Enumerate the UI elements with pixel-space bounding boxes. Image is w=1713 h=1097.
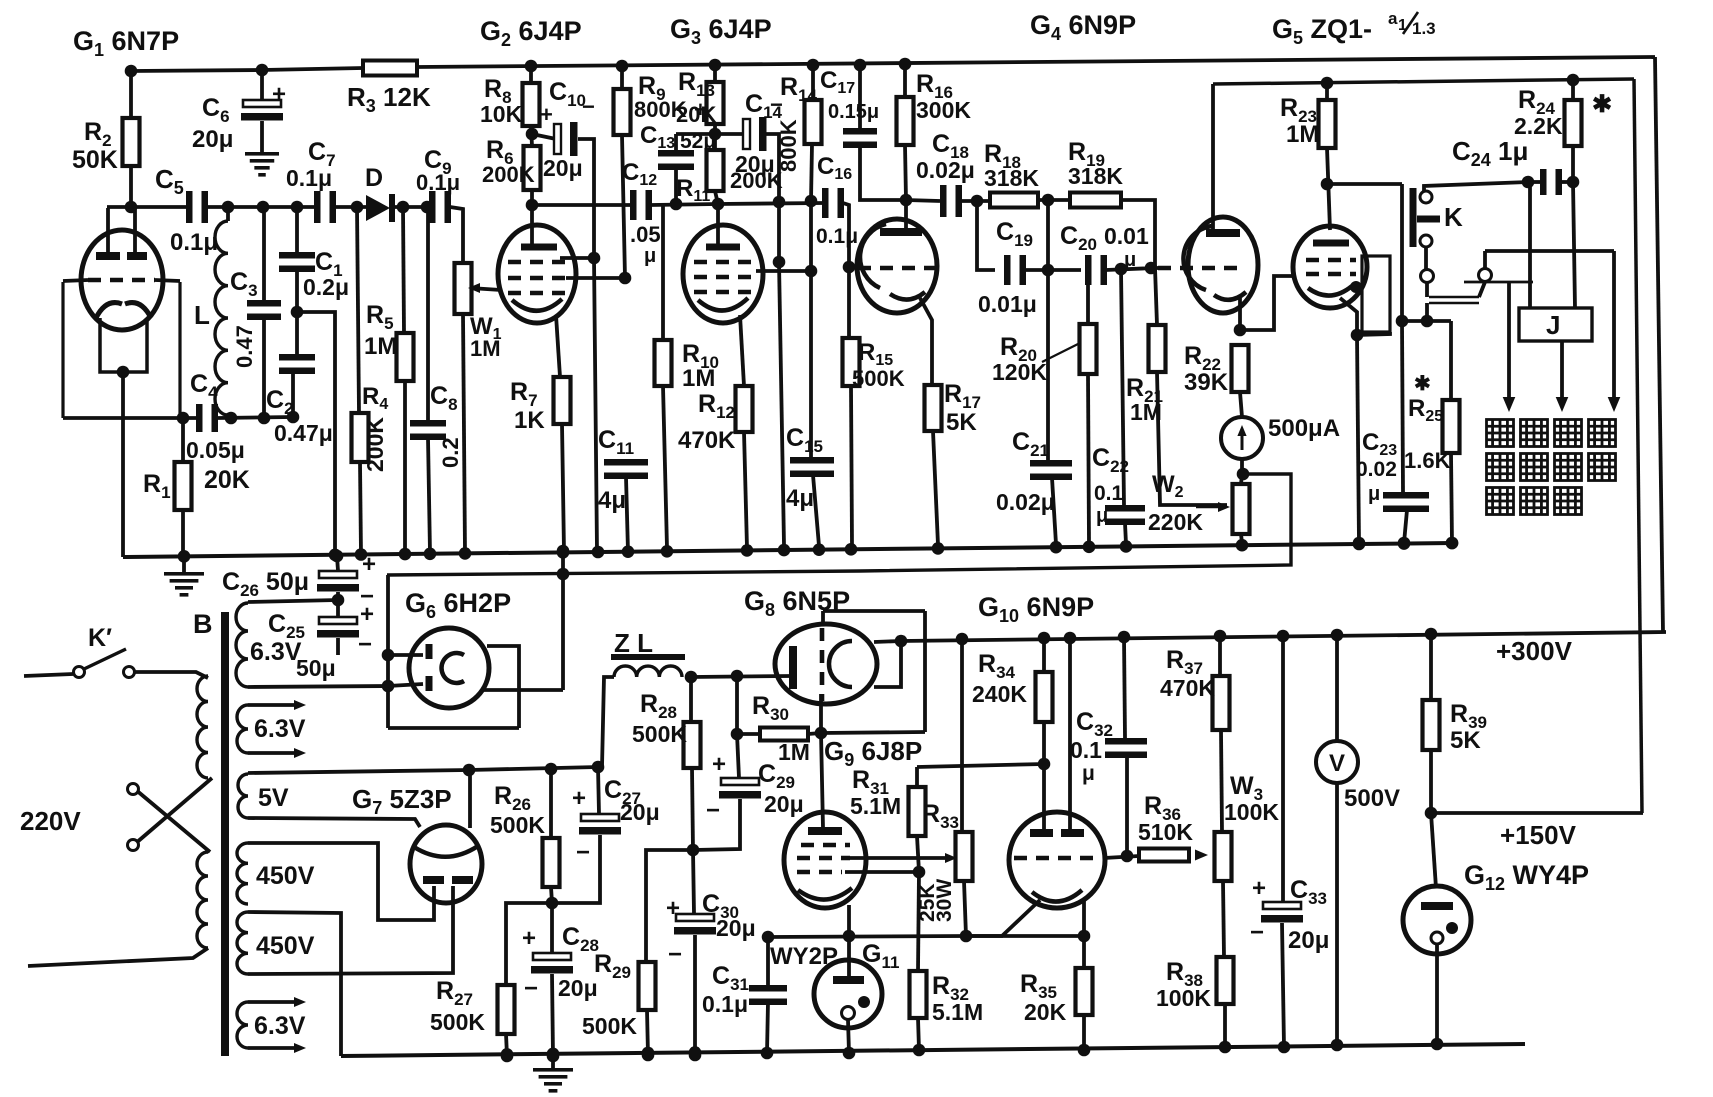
transformer crossover: [136, 778, 212, 852]
capacitor C19: [1004, 255, 1026, 285]
capacitor C24: [1522, 169, 1580, 195]
label R24 asterisk: [1592, 91, 1612, 118]
wire G12 cathode lead: [1431, 944, 1444, 1050]
node G5b plate: [1321, 178, 1334, 191]
wire 450V-1 top: [248, 843, 434, 920]
wire cathode node to target box: [1357, 332, 1390, 335]
tube G2 anode bar: [521, 205, 557, 251]
capacitor C22: [1105, 269, 1145, 544]
node G3 grid: [712, 198, 725, 211]
svg-text:1.3: 1.3: [1412, 19, 1436, 38]
resistor R20: [1080, 272, 1097, 544]
svg-text:6.3V: 6.3V: [254, 715, 306, 743]
potentiometer W3: [1215, 730, 1232, 957]
node C29 top: [731, 728, 744, 741]
label C6 20u: [192, 94, 233, 153]
svg-text:0.01: 0.01: [1104, 223, 1149, 249]
wire right border from top bus to +300V rail: [1655, 57, 1663, 632]
tube G7 filament arc: [414, 846, 478, 857]
resistor R25: [1443, 321, 1460, 549]
svg-text:0.01μ: 0.01μ: [978, 291, 1037, 317]
label C5: [155, 164, 218, 256]
label R35 20K: [1020, 970, 1067, 1025]
svg-text:0.1: 0.1: [1094, 482, 1124, 505]
wire 450V-2 bottom: [248, 886, 453, 974]
wire plate line to R30 node: [821, 732, 925, 733]
label C16 0.1u: [816, 153, 858, 248]
svg-text:318K: 318K: [1068, 163, 1123, 189]
node rail G10 plate: [1064, 632, 1077, 645]
node R34 bottom: [1038, 758, 1051, 771]
resistor R31: [909, 767, 926, 872]
capacitor C5: [186, 191, 208, 223]
capacitor C2: [279, 354, 315, 374]
svg-text:1K: 1K: [514, 407, 545, 434]
svg-text:0.02μ: 0.02μ: [996, 489, 1055, 515]
capacitor C29: [693, 734, 761, 850]
resistor R9: [614, 66, 631, 278]
label R13 20K: [676, 68, 716, 127]
label C4 0.05u: [186, 370, 245, 463]
svg-text:200K: 200K: [362, 417, 388, 472]
svg-text:0.1μ: 0.1μ: [170, 229, 218, 256]
svg-text:50K: 50K: [72, 146, 118, 174]
svg-text:1M: 1M: [682, 365, 715, 392]
capacitor C31: [749, 937, 787, 1059]
label C2 0.47u: [266, 386, 333, 446]
node C17 top: [854, 59, 867, 72]
choke ZL: [602, 654, 685, 767]
tube G5a inner arc: [1183, 226, 1212, 290]
node R16 top: [899, 58, 912, 71]
wire G2 grid2 to C11: [566, 272, 631, 285]
svg-text:+: +: [712, 751, 726, 778]
wire bias winding top: [248, 600, 338, 602]
switch K contact bottom: [1420, 235, 1432, 247]
label R15 500K: [852, 339, 905, 391]
svg-text:20μ: 20μ: [543, 155, 583, 181]
wire D to C9: [395, 201, 433, 214]
wire cathode bias row: [966, 934, 1084, 938]
capacitor C17: [843, 65, 906, 200]
svg-text:220V: 220V: [20, 806, 81, 836]
svg-text:+: +: [666, 895, 680, 922]
tube G10 anode bars: [1030, 829, 1084, 837]
wire heater bottom with arrow: [248, 748, 306, 758]
node R14 top: [807, 59, 820, 72]
wire C15 column: [809, 201, 813, 457]
tube G5a cathode arc: [1214, 292, 1246, 300]
svg-text:450V: 450V: [256, 862, 315, 890]
label C15 4u: [786, 424, 823, 512]
svg-text:510K: 510K: [1138, 819, 1193, 845]
tube G11 top bar: [833, 976, 864, 984]
tube G5a anode bar: [1206, 84, 1240, 237]
wire G6 plate2 lead: [388, 684, 423, 686]
svg-text:50μ: 50μ: [296, 655, 336, 681]
wire C23 R25 row: [1396, 315, 1451, 328]
label C17 0.15u: [820, 67, 879, 123]
label R2 50K: [72, 118, 118, 174]
tube G11 envelope: [814, 960, 882, 1028]
tube G4 inner arc: [860, 224, 886, 288]
resistor R4: [352, 207, 369, 554]
node ground bus junctions: [178, 537, 1459, 563]
label C7 0.1u: [286, 138, 336, 191]
inductor L: [215, 207, 228, 415]
svg-text:20μ: 20μ: [1288, 927, 1329, 954]
wire bottom ground bus (power section): [341, 1044, 1525, 1056]
tube G6 plates: [426, 644, 433, 691]
node G2 plate: [526, 199, 539, 212]
transformer secondary 450V winding 2: [237, 912, 248, 974]
wire B+ distribution bus: [387, 474, 1291, 575]
label C26 polarity: [360, 551, 376, 610]
svg-text:0.47μ: 0.47μ: [274, 420, 333, 446]
svg-text:+: +: [522, 925, 536, 952]
tube G9 cathode arc: [798, 888, 852, 900]
wire G9 grid cap lead: [821, 733, 823, 828]
node rail R33: [956, 633, 969, 646]
label R1 20K: [143, 466, 250, 502]
label R10 1M: [682, 340, 719, 392]
svg-text:800K: 800K: [776, 119, 801, 172]
svg-text:0.2μ: 0.2μ: [303, 274, 349, 300]
wire G5a cathode to G5b grid: [1240, 276, 1296, 330]
node R23 top: [1321, 77, 1334, 90]
svg-text:500K: 500K: [852, 366, 905, 391]
wire G2 cathode to R7: [556, 315, 560, 377]
resistor R23: [1319, 83, 1336, 148]
resistor R33: [956, 637, 973, 942]
wire G7 output to B+ node: [468, 770, 472, 828]
svg-text:220K: 220K: [1148, 509, 1203, 535]
tube G1 envelope: [81, 230, 163, 330]
wire C4 to C2 node: [218, 417, 293, 418]
wire cathode row y418: [63, 411, 299, 425]
meter V: [1316, 635, 1358, 783]
svg-text:−: −: [1250, 919, 1264, 946]
label R28 500K: [632, 690, 687, 747]
node R8 R6 junction: [526, 128, 539, 141]
wire phase node to G5a: [1145, 262, 1162, 275]
label R14 800K: [776, 119, 801, 172]
label C23 0.02u: [1356, 429, 1397, 505]
resistor R10: [655, 204, 672, 548]
svg-text:Z L: Z L: [614, 628, 653, 658]
svg-text:4μ: 4μ: [598, 487, 626, 514]
label R11 200K: [730, 168, 783, 193]
label R20 120K: [992, 333, 1078, 385]
wire 220V bottom lead: [28, 948, 208, 966]
wire G6 box right part: [482, 646, 563, 728]
svg-text:10K: 10K: [480, 101, 523, 127]
label C13 52u: [640, 122, 716, 153]
svg-text:μ: μ: [1368, 483, 1380, 505]
wire +300V rail: [901, 632, 1666, 641]
tube G8 plate bar: [789, 646, 797, 689]
wire C19 drop: [977, 201, 995, 270]
wire G3 plate row: [718, 203, 823, 204]
wire ground bus (top section): [123, 543, 1453, 557]
resistor R5: [397, 207, 414, 553]
capacitor C11: [604, 459, 648, 552]
svg-text:6.3V: 6.3V: [250, 638, 302, 666]
resistor R36: [1139, 849, 1208, 862]
label 500V: [1344, 785, 1400, 812]
label G12 WY4P: [1464, 860, 1589, 894]
node R18 R19 junction: [1038, 194, 1070, 207]
resistor R38: [1217, 957, 1234, 1053]
label C30 20u: [666, 890, 756, 968]
wire C14 column to cathode node: [773, 202, 786, 268]
svg-text:1M: 1M: [1130, 399, 1162, 425]
label R32 5.1M: [932, 972, 983, 1025]
capacitor C9: [429, 191, 451, 223]
svg-text:120K: 120K: [992, 359, 1047, 385]
tube G12 dot electrode: [1446, 922, 1458, 934]
resistor R15: [843, 267, 860, 545]
wire G11 cathode lead: [843, 1020, 856, 1059]
resistor R7: [554, 377, 571, 552]
label B: [193, 609, 213, 639]
resistor R32: [910, 872, 927, 1056]
svg-text:μ: μ: [1096, 505, 1108, 527]
tube G9 envelope: [784, 812, 866, 908]
label R12 470K: [678, 390, 736, 454]
label G2 6J4P: [480, 16, 582, 50]
wire R34 feedback to R31: [917, 764, 1044, 767]
label C25 polarity: [358, 601, 374, 658]
label 220V: [20, 806, 81, 836]
svg-text:−: −: [524, 975, 538, 1002]
resistor R12: [736, 315, 753, 548]
svg-text:0.02: 0.02: [1356, 458, 1397, 481]
tube G1 cathode box: [100, 318, 147, 418]
label ZL: [614, 628, 653, 658]
arrow to alarm 3: [1608, 251, 1621, 412]
tube G5b anode bar: [1313, 148, 1349, 247]
svg-text:20μ: 20μ: [192, 126, 233, 153]
label G3 6J4P: [670, 14, 772, 48]
capacitor C3: [247, 300, 281, 320]
transformer core: [221, 612, 229, 1056]
svg-text:G3 6J4P: G3 6J4P: [670, 14, 772, 48]
label R17 5K: [944, 380, 981, 436]
tube G10 cathode arc: [1032, 890, 1082, 902]
svg-text:20K: 20K: [1024, 999, 1067, 1025]
svg-text:5.1M: 5.1M: [932, 999, 983, 1025]
resistor R24: [1565, 80, 1582, 182]
label C24 1u: [1452, 136, 1528, 170]
capacitor C15: [790, 457, 834, 546]
wire C9 to W1: [450, 207, 463, 265]
node rail R34: [1038, 632, 1051, 645]
node R24 top: [1567, 74, 1580, 87]
svg-text:−: −: [582, 94, 595, 119]
resistor R28: [684, 677, 701, 850]
label R30 1M: [752, 692, 810, 765]
tube G5a envelope: [1188, 217, 1258, 313]
node rail R37: [1214, 630, 1227, 643]
svg-text:+: +: [272, 81, 286, 108]
wire V to ground: [1331, 783, 1344, 1051]
node G4 plate: [900, 194, 913, 207]
transformer tap circles: [128, 784, 139, 851]
capacitor C20: [1085, 255, 1107, 285]
svg-text:μ: μ: [1082, 762, 1095, 785]
svg-text:6.3V: 6.3V: [254, 1012, 306, 1040]
svg-text:G4 6N9P: G4 6N9P: [1030, 10, 1136, 44]
resistor R35: [1076, 936, 1093, 1056]
relay J box: [1519, 308, 1592, 341]
svg-text:0.1μ: 0.1μ: [702, 991, 748, 1017]
resistor R17: [920, 298, 942, 545]
resistor R21: [1149, 268, 1228, 505]
resistor R39: [1423, 634, 1440, 813]
label R37 470K: [1160, 646, 1215, 701]
svg-text:G1 6N7P: G1 6N7P: [73, 26, 179, 60]
tube G3 grid dashes: [694, 262, 752, 292]
tube G10 grid dashes: [1014, 856, 1100, 861]
wire 5V bottom: [248, 818, 420, 827]
svg-text:500K: 500K: [490, 812, 545, 838]
wire G10 grid to R36: [1104, 856, 1139, 858]
svg-text:0.47: 0.47: [232, 325, 257, 368]
label R25 1.6K: [1404, 373, 1451, 473]
wire K column: [1400, 184, 1404, 321]
wire ZL to G8 plate: [691, 670, 790, 683]
plug contact right: [1479, 269, 1492, 282]
svg-text:5.1M: 5.1M: [850, 793, 901, 819]
node +150V junction: [1425, 807, 1438, 820]
wire G9 cathode drop: [843, 905, 856, 942]
transformer secondary 6.3V heater winding: [237, 705, 248, 753]
svg-text:G9 6J8P: G9 6J8P: [824, 736, 922, 770]
label R11: [676, 175, 710, 205]
wire C3 column: [262, 207, 266, 417]
label R33 25K30W: [916, 879, 956, 922]
wire top supply bus: [131, 57, 1655, 71]
node ZL right: [685, 671, 698, 684]
tube G4 grid dashes: [858, 266, 935, 271]
tube G8 cathode arc: [829, 641, 852, 687]
svg-text:20μ: 20μ: [620, 799, 660, 825]
svg-text:−: −: [706, 797, 720, 824]
label R23 1M: [1280, 94, 1319, 148]
svg-text:1.6K: 1.6K: [1404, 448, 1451, 473]
label 6.3V bottom: [254, 1012, 306, 1040]
label 500uA: [1268, 415, 1340, 442]
resistor R34: [1036, 638, 1053, 764]
label 6.3V bias: [250, 638, 302, 666]
switch K arm: [1417, 216, 1440, 223]
svg-text:G2 6J4P: G2 6J4P: [480, 16, 582, 50]
label R34 240K: [972, 650, 1027, 707]
svg-text:1M: 1M: [1286, 121, 1319, 148]
wire B+ feed: [469, 761, 604, 776]
label R26 500K: [490, 782, 545, 838]
wire C20 to phase node: [1106, 263, 1155, 276]
wire C7 to D: [335, 201, 366, 214]
svg-text:0.2: 0.2: [438, 437, 463, 468]
label R29 500K: [582, 950, 637, 1039]
capacitor C10: [532, 122, 597, 551]
label C9 0.1u: [416, 146, 460, 195]
label C12 .05u: [622, 159, 661, 267]
wire G9 wiper row: [850, 853, 957, 863]
label C8 0.2: [430, 382, 463, 468]
resistor R6: [524, 146, 541, 205]
label C20: [1060, 222, 1097, 254]
switch K contact top: [1420, 191, 1432, 203]
wire R19 to G5a grid: [1121, 200, 1155, 268]
label R24 2.2K: [1514, 86, 1563, 139]
node R28 C29 bottom junction: [687, 844, 700, 857]
svg-text:0.1: 0.1: [1070, 737, 1102, 763]
svg-text:500K: 500K: [430, 1009, 485, 1035]
wire G5b cathode to ground: [1340, 298, 1365, 549]
resistor R3: [363, 61, 417, 76]
label G7 5Z3P: [352, 784, 452, 818]
label R19 318K: [1068, 138, 1123, 189]
tube G4 cathode arc: [890, 292, 925, 300]
node R2 top: [125, 65, 138, 78]
transformer secondary 6.3V bottom winding: [237, 1002, 248, 1048]
label R38 100K: [1156, 958, 1211, 1011]
label R3 12K: [347, 82, 431, 116]
svg-text:μ: μ: [644, 245, 656, 267]
tube G12 envelope: [1403, 886, 1471, 954]
svg-text:+150V: +150V: [1500, 820, 1577, 850]
capacitor C8: [410, 207, 446, 553]
label W3 100K: [1224, 772, 1279, 825]
tube G3 cathode arc: [698, 298, 748, 311]
wire C2 to C4 wire: [291, 372, 295, 417]
tube G11 cathode circle: [842, 1007, 855, 1020]
svg-text:300K: 300K: [916, 97, 971, 123]
label R27 500K: [430, 977, 485, 1035]
wire R39 to G12: [1431, 813, 1436, 888]
capacitor C30: [674, 850, 716, 1061]
label +300V: [1496, 636, 1573, 666]
wire C24 to switch K: [1424, 182, 1528, 191]
tube G5b cathode arc: [1308, 286, 1352, 296]
wire heater top with arrow: [248, 700, 306, 710]
resistor R1: [175, 418, 192, 556]
tube G12 top bar: [1421, 902, 1453, 910]
resistor R26: [543, 769, 560, 903]
wire bracket under plug: [1464, 281, 1533, 284]
label C27 20u: [572, 776, 660, 866]
svg-text:1M: 1M: [778, 739, 810, 765]
switch K' blade: [84, 649, 126, 669]
label C19 0.01u: [978, 218, 1037, 317]
node R26 C27 junction: [546, 897, 559, 910]
svg-text:500μA: 500μA: [1268, 415, 1340, 442]
node C6 top: [256, 64, 269, 77]
wire +150V rail: [1431, 811, 1643, 815]
wire G8 top lead: [821, 611, 825, 624]
tube G9 top grid bar: [808, 827, 842, 835]
label C18 0.02u: [916, 130, 975, 183]
label G6 6H2P: [405, 588, 511, 622]
svg-text:G7 5Z3P: G7 5Z3P: [352, 784, 452, 818]
svg-text:240K: 240K: [972, 681, 1027, 707]
transformer primary upper: [197, 676, 208, 778]
wire G1 cathode to ground bus: [121, 418, 125, 557]
node B+ bus left end: [463, 764, 476, 777]
